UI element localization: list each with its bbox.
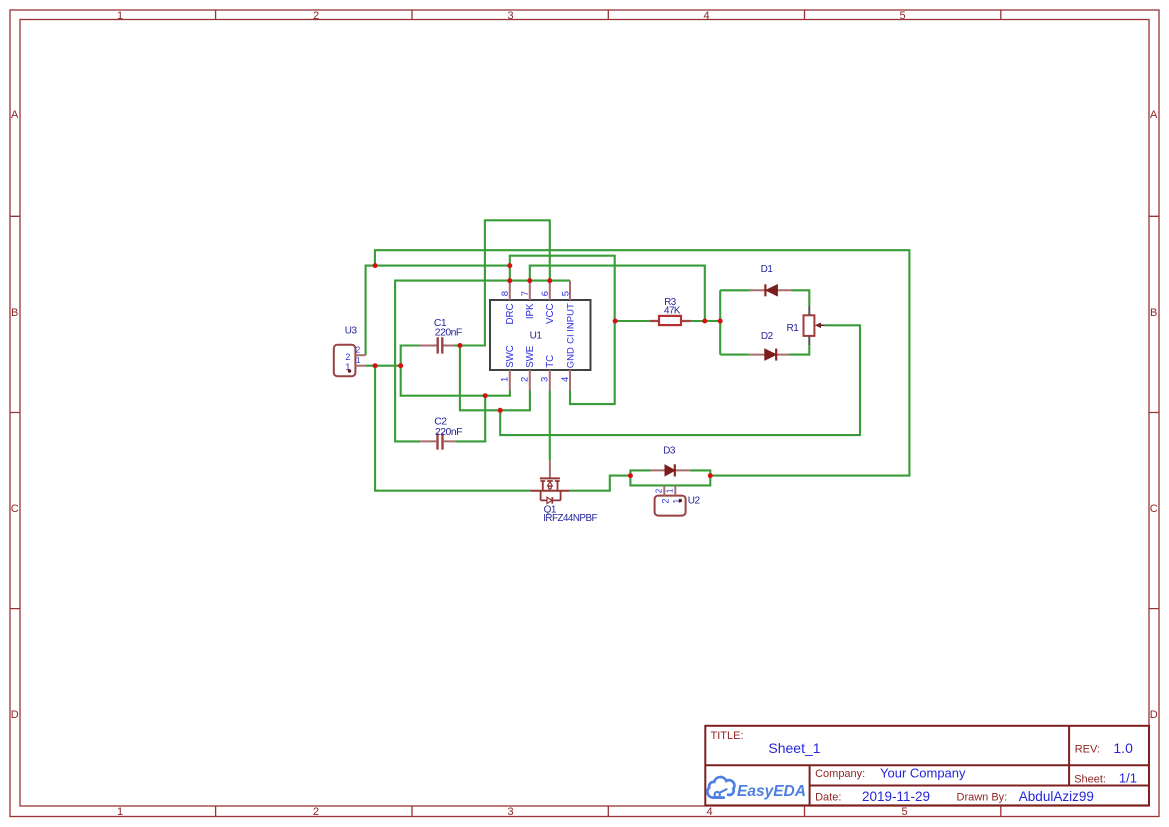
svg-text:C: C [1150,503,1158,515]
svg-text:SWC: SWC [505,345,516,368]
svg-text:TITLE:: TITLE: [711,730,744,742]
svg-text:CI INPUT: CI INPUT [565,303,576,344]
svg-text:Date:: Date: [815,792,841,804]
svg-text:1: 1 [117,806,123,818]
U1 pin 1 [500,345,516,390]
svg-text:A: A [11,109,19,121]
U3 pin 1 [355,365,365,367]
svg-text:1: 1 [500,377,511,382]
svg-text:1/1: 1/1 [1119,771,1137,786]
EasyEDA logo [707,777,806,800]
junction pin6 rail [547,278,552,283]
wire D3 loop [630,470,710,485]
junction C2 right to SWC [483,393,488,398]
svg-text:D3: D3 [663,445,676,456]
U2 pin 1 [674,485,676,495]
svg-text:1: 1 [117,10,123,22]
junction U3 pin1 branch [373,363,378,368]
svg-text:C: C [11,503,19,515]
wire U1 pin3 TC to Q1 gate [549,390,551,460]
wire D1 right to R1 top [791,290,810,306]
svg-text:4: 4 [706,806,712,818]
svg-text:U2: U2 [688,496,701,507]
svg-text:REV:: REV: [1075,744,1100,756]
capacitor C2 [420,417,462,450]
junction D3 left [628,473,633,478]
svg-text:2: 2 [660,499,670,504]
svg-text:Sheet:: Sheet: [1074,773,1106,785]
wire U3 pin1 [366,365,401,367]
junction pin7 rail [527,278,532,283]
diode D2 [749,331,788,361]
U1 pin 7 [520,281,536,320]
rheostat R1 [787,306,825,345]
svg-text:4: 4 [560,377,571,382]
svg-text:D1: D1 [761,264,774,275]
svg-text:7: 7 [520,291,531,296]
title block [705,726,1149,806]
U1 pin 4 [560,347,576,391]
junction R3 right [702,319,707,324]
diode D1 [750,264,791,296]
svg-text:Drawn By:: Drawn By: [957,792,1008,804]
svg-text:VCC: VCC [545,304,556,324]
svg-text:SWE: SWE [525,345,536,368]
junction R3 left [613,319,618,324]
svg-text:B: B [11,307,18,319]
svg-text:2: 2 [313,10,319,22]
wire D2 left [720,354,749,356]
U2 pin 2 [663,485,665,495]
U1 pin 6 [540,281,556,324]
svg-text:2: 2 [356,346,361,355]
svg-text:R1: R1 [787,323,800,334]
svg-text:DRC: DRC [505,304,516,325]
junction SWE to wiper wire [498,408,503,413]
svg-text:C2: C2 [434,417,447,428]
diode D3 [651,445,690,476]
svg-text:IRFZ44NPBF: IRFZ44NPBF [543,513,597,524]
U1 pin 2 [520,345,536,390]
svg-text:B: B [1150,307,1157,319]
junction pin8 rail [507,278,512,283]
svg-text:U3: U3 [345,325,358,336]
svg-text:Your Company: Your Company [880,765,966,780]
U3 pin 2 [355,354,365,356]
svg-text:U1: U1 [530,330,543,341]
wire U1 top pins rail to C2 left [395,281,570,442]
svg-text:2: 2 [655,488,664,493]
svg-text:D2: D2 [761,331,774,342]
junction D3 right [708,473,713,478]
svg-text:1: 1 [356,356,361,365]
wire U1 pin8 loop to pin4 [510,256,615,404]
wire bridge left vertical [719,290,721,354]
svg-text:GND: GND [565,347,576,368]
junction at U1 pin8 riser top [507,263,512,268]
wire C2 right up to SWC net [456,396,485,442]
wire C1 right down to U1 pin2 SWE [460,346,530,411]
wire R3 left [615,320,650,322]
svg-text:Company:: Company: [815,768,865,780]
svg-text:1: 1 [666,488,675,493]
svg-text:220nF: 220nF [435,427,462,438]
svg-text:47K: 47K [664,306,681,317]
capacitor C1 [420,318,462,354]
svg-text:D: D [1150,709,1158,721]
svg-text:4: 4 [703,10,709,22]
svg-text:220nF: 220nF [435,328,462,339]
wire SWE net to R1 wiper [500,325,860,435]
svg-text:2: 2 [313,806,319,818]
wire U1 pin6 to C1 right [454,220,550,345]
svg-text:EasyEDA: EasyEDA [737,783,806,800]
junction U3 pin1 to C1 branch [398,363,403,368]
svg-text:TC: TC [545,355,556,368]
U1 pin 8 [500,281,516,325]
wire U3 pin1 down to Q1 drain [375,366,530,491]
transistor Q1 [530,461,597,524]
svg-text:6: 6 [540,291,551,296]
resistor R3 [650,297,691,325]
svg-text:IPK: IPK [525,303,536,319]
svg-text:3: 3 [507,10,513,22]
U1 pin 3 [540,355,556,391]
svg-text:2: 2 [520,377,531,382]
svg-text:2: 2 [345,352,350,362]
wire C1 left to U1 pin1 SWC [401,346,510,396]
junction at U3 pin2 riser [373,263,378,268]
IC U1 [490,300,591,370]
svg-text:5: 5 [901,806,907,818]
connector U3 [334,325,366,376]
wire D1 left [720,289,750,291]
svg-text:8: 8 [500,291,511,296]
svg-text:2019-11-29: 2019-11-29 [862,789,930,804]
junction C1 right plate [457,343,462,348]
wire U1 pin7 to R3 right [530,266,705,321]
connector U2 [655,485,701,515]
svg-text:3: 3 [507,806,513,818]
svg-text:AbdulAziz99: AbdulAziz99 [1019,789,1094,804]
wire D2 right to R1 bottom [789,345,810,354]
wire Q1 source to D3 left [569,476,630,491]
svg-text:5: 5 [899,10,905,22]
junction bridge left [718,319,723,324]
wire top long rail to D3 right [375,250,910,475]
wire R3 right to bridge [691,320,720,322]
svg-text:A: A [1150,109,1158,121]
svg-text:5: 5 [560,291,571,296]
U1 pin 5 [560,281,576,344]
svg-text:1.0: 1.0 [1113,740,1133,756]
svg-text:D: D [11,709,19,721]
svg-text:Sheet_1: Sheet_1 [768,740,820,756]
wire U3 pin2 to U1 pin8 net [366,266,510,356]
svg-text:3: 3 [540,377,551,382]
